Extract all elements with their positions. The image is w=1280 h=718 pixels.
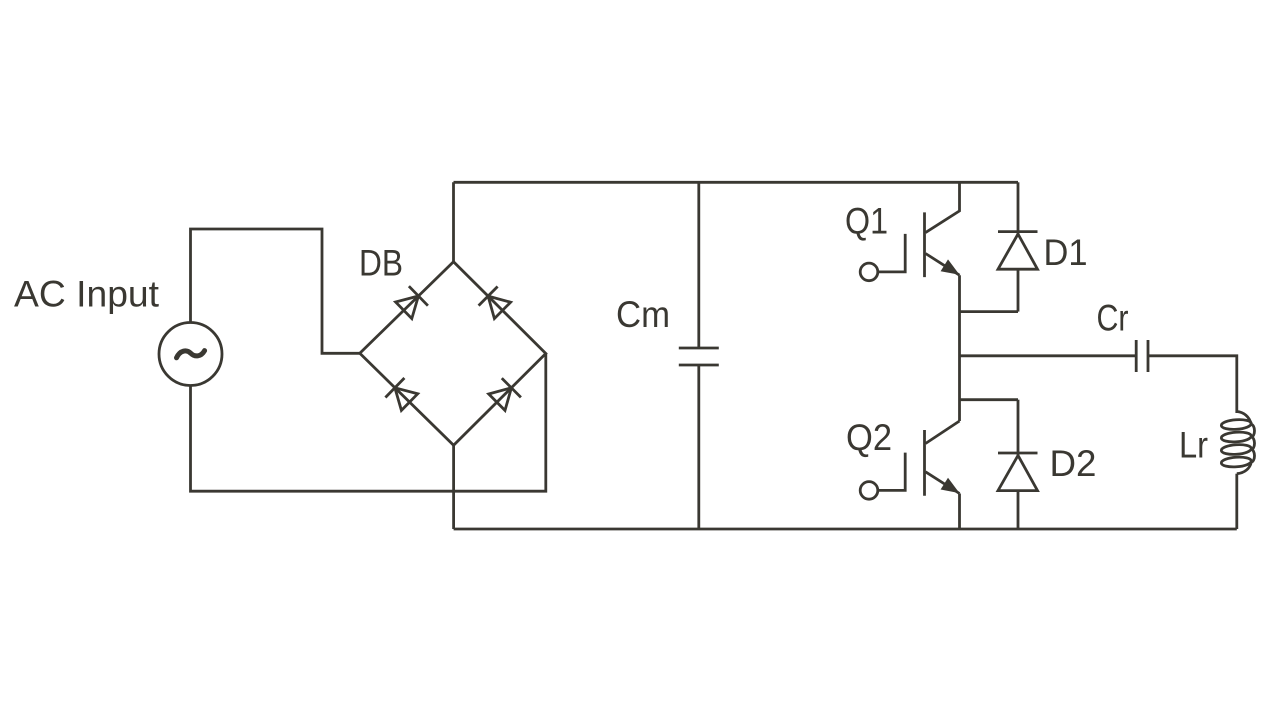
- wire top rail: [454, 181, 1019, 184]
- svg-text:DB: DB: [359, 243, 403, 284]
- transistor Q1 collector wire: [926, 182, 960, 232]
- capacitor Cm wire top: [697, 182, 700, 348]
- diode D1 cathode bar: [998, 230, 1038, 233]
- transistor Q1 gate terminal circle: [860, 263, 878, 281]
- diode D2 cathode wire: [1017, 400, 1020, 455]
- diode D1 anode wire: [1017, 269, 1020, 311]
- wire bridge bottom vertex to bottom rail: [452, 445, 455, 529]
- capacitor Cm plates: [679, 348, 719, 365]
- wire AC bottom to bridge right vertex: [191, 354, 546, 492]
- svg-text:D1: D1: [1044, 232, 1088, 273]
- svg-text:Q2: Q2: [846, 417, 892, 458]
- diode DB bottom-left: [385, 378, 417, 410]
- diode D2 cathode bar: [998, 452, 1038, 455]
- bridge DB diamond: [360, 262, 546, 446]
- capacitor Cm wire bottom: [697, 365, 700, 529]
- transistor Q1 emitter wire: [926, 254, 960, 276]
- transistor Q2 gate terminal circle: [860, 482, 878, 500]
- svg-text:Lr: Lr: [1179, 425, 1208, 466]
- diode D2 anode wire: [1017, 491, 1020, 529]
- transistor Q2 body bar: [923, 430, 926, 496]
- svg-text:Q1: Q1: [845, 201, 888, 242]
- inductor Lr coil: [1221, 412, 1254, 474]
- diode D2 triangle: [998, 455, 1038, 490]
- capacitor Cr plates: [1136, 340, 1148, 372]
- wire bottom rail: [454, 528, 1237, 531]
- transistor Q2 gate bar and lead: [878, 453, 905, 491]
- wire Q2 collector to D2 cathode: [960, 398, 1019, 401]
- transistor Q2 emitter wire: [926, 472, 960, 494]
- svg-text:Cm: Cm: [616, 294, 670, 335]
- transistor Q1 gate bar and lead: [878, 234, 905, 272]
- transistor Q1 body bar: [923, 212, 926, 277]
- svg-text:AC Input: AC Input: [14, 274, 160, 315]
- diode DB top-right: [479, 287, 511, 319]
- svg-text:Cr: Cr: [1097, 298, 1129, 339]
- AC source V1: [159, 323, 222, 386]
- wire Cr to right corner: [1148, 356, 1237, 413]
- wire midpoint to Cr: [960, 354, 1137, 357]
- wire AC top to bridge left vertex: [191, 229, 360, 353]
- inductor Lr bottom wire: [1235, 474, 1238, 529]
- transistor Q1 emitter arrow: [941, 259, 960, 274]
- wire Q1 emitter to D1 anode: [960, 310, 1019, 313]
- svg-text:D2: D2: [1050, 443, 1097, 484]
- wire bridge top vertex to top rail: [452, 182, 455, 261]
- wire Q1 emitter to Q2 collector (midpoint leg): [958, 275, 961, 421]
- diode DB bottom-right: [489, 378, 521, 410]
- transistor Q2 collector wire: [926, 421, 960, 444]
- diode DB top-left: [396, 286, 428, 318]
- diode D1 triangle: [998, 234, 1038, 269]
- diode D1 cathode wire: [1017, 182, 1020, 233]
- AC sine symbol: [177, 351, 205, 358]
- transistor Q2 emitter arrow: [941, 478, 960, 493]
- wire Q2 emitter to bottom rail: [958, 494, 961, 530]
